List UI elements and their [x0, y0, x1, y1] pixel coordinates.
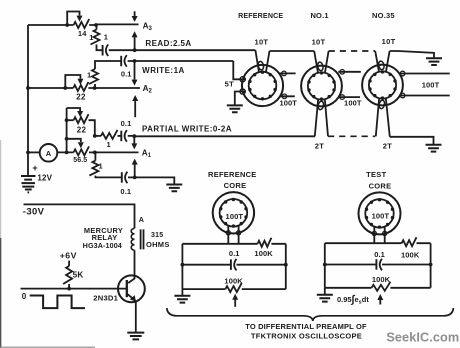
core NO.35 (toroid 3): [362, 65, 403, 106]
wire top dashed link core2-core3: [329, 50, 376, 52]
svg-text:WRITE:1A: WRITE:1A: [142, 66, 185, 75]
svg-text:REFERENCE: REFERENCE: [208, 170, 257, 179]
wire rheostat column bus: [66, 108, 68, 152]
wire A3 rail right to contact: [89, 23, 138, 26]
wire base line: [21, 288, 127, 290]
resistor R12 100K (test top): [402, 237, 417, 246]
core tab left upper (5T): [240, 77, 245, 82]
wire test box sides: [325, 243, 431, 288]
wire core3 to bottom ground: [390, 137, 434, 144]
ground (emitter): [127, 333, 144, 340]
square wave input: [30, 296, 85, 309]
ground (branch): [166, 185, 182, 192]
wire test core leads: [374, 227, 384, 244]
svg-text:5K: 5K: [73, 270, 84, 279]
resistor R8 1 (lower branch): [94, 152, 96, 160]
wire 10T leads core3: [375, 51, 379, 71]
wire core3 to top ground: [390, 51, 434, 58]
svg-text:100T: 100T: [344, 99, 362, 108]
resistor R3 22 (rheostat): [73, 82, 88, 91]
wire ref box mid line: [182, 264, 285, 266]
ground (2T chain): [426, 145, 442, 152]
resistor R1 14 (rheostat): [74, 19, 90, 28]
resistor R9 5K: [68, 261, 70, 266]
svg-text:100T: 100T: [372, 212, 390, 221]
capacitor C1 1 (A3 branch): [102, 45, 104, 56]
wire 5T to ground: [235, 92, 246, 105]
svg-text:PARTIAL WRITE:0-2A: PARTIAL WRITE:0-2A: [142, 125, 232, 134]
resistor R13 100K (test pot): [372, 282, 391, 291]
svg-text:10T: 10T: [312, 38, 326, 47]
svg-text:0: 0: [22, 292, 27, 301]
wire 2T leads core3: [376, 99, 379, 137]
capacitor C2 0.1 (WRITE): [120, 56, 122, 67]
svg-text:+: +: [32, 163, 37, 173]
ground (battery): [22, 187, 34, 193]
svg-text:0.1: 0.1: [121, 69, 132, 78]
wire 100T stubs core1: [280, 73, 296, 96]
scan artifact left edge: [0, 238, 2, 348]
wire A2 row rail: [28, 87, 140, 89]
svg-text:TFKTRONIX OSCILLOSCOPE: TFKTRONIX OSCILLOSCOPE: [251, 332, 362, 341]
svg-text:100T: 100T: [279, 99, 297, 108]
svg-text:100K: 100K: [224, 276, 243, 285]
wire branch to ground: [128, 177, 174, 184]
capacitor C4 0.1 (lower branch): [121, 172, 123, 183]
wire test box mid line: [325, 264, 431, 266]
svg-text:A3: A3: [143, 22, 153, 32]
svg-text:100T: 100T: [226, 212, 244, 221]
resistor R10 100K (ref top): [258, 238, 272, 247]
svg-text:22: 22: [76, 92, 86, 101]
core NO.1 (toroid 2): [301, 66, 342, 107]
svg-text:22: 22: [77, 125, 87, 134]
svg-text:100K: 100K: [254, 249, 273, 258]
wire ref box top: [182, 243, 285, 245]
svg-text:NO.1: NO.1: [310, 11, 328, 20]
wire 10T leads core2: [314, 51, 318, 72]
wire 10T leads core1: [255, 50, 259, 71]
svg-text:14: 14: [78, 29, 87, 38]
svg-text:10T: 10T: [254, 38, 268, 47]
wire ref box bottom: [182, 288, 285, 290]
wire bottom dashed link core2-core3: [328, 135, 375, 137]
wire A1 row rail right: [89, 151, 139, 153]
svg-text:5T: 5T: [225, 79, 234, 88]
svg-text:2T: 2T: [315, 141, 325, 150]
wire test box top: [325, 242, 431, 244]
svg-text:315: 315: [151, 232, 163, 239]
svg-text:100K: 100K: [372, 275, 391, 284]
resistor R5 22 (rheostat, partial write): [67, 119, 74, 121]
svg-text:100T: 100T: [422, 80, 440, 89]
resistor R7 1 (upper partial-write branch): [95, 135, 101, 137]
wire 100T lines core3: [399, 74, 450, 96]
svg-text:SeekIC.com: SeekIC.com: [386, 331, 459, 345]
svg-text:CORE: CORE: [369, 181, 392, 190]
svg-text:A: A: [46, 149, 52, 158]
svg-text:100K: 100K: [401, 251, 420, 260]
svg-text:1: 1: [104, 33, 108, 42]
wire bus to ammeter: [28, 151, 40, 153]
svg-text:OHMS: OHMS: [146, 240, 170, 249]
resistor R2 1 (series, A3 branch): [96, 25, 98, 30]
wire left supply bus: [27, 25, 29, 176]
svg-text:A: A: [139, 215, 144, 224]
ground (10T chain): [426, 58, 442, 65]
relay contact A2: [134, 61, 136, 80]
svg-text:56.5: 56.5: [73, 157, 87, 164]
resistor R11 100K (ref pot): [225, 283, 241, 292]
svg-text:+6V: +6V: [60, 251, 77, 261]
wire WRITE line: [128, 60, 234, 62]
relay contact A3: [134, 11, 136, 16]
wire PARTIAL WRITE line: [128, 135, 315, 137]
svg-text:0.1: 0.1: [374, 250, 385, 259]
svg-text:REFERENCE: REFERENCE: [238, 12, 283, 20]
wire top link core1-core2: [270, 50, 315, 52]
relay coil A 315 ohms: [131, 228, 134, 250]
svg-text:10T: 10T: [382, 37, 396, 46]
svg-text:12V: 12V: [37, 174, 52, 183]
svg-text:1: 1: [87, 71, 91, 80]
svg-text:TEST: TEST: [366, 170, 386, 179]
relay contact A1: [133, 136, 135, 143]
svg-text:A1: A1: [142, 148, 152, 159]
brace to oscilloscope: [167, 308, 454, 321]
ground (ref box): [181, 289, 183, 295]
capacitor C6 0.1 (test): [375, 259, 377, 270]
svg-text:0.1: 0.1: [120, 187, 131, 196]
resistor R4 1 (series, A2 branch): [94, 84, 96, 88]
svg-text:-30V: -30V: [23, 207, 45, 218]
svg-text:READ:2.5A: READ:2.5A: [145, 39, 191, 48]
svg-text:0.95∫esdt: 0.95∫esdt: [337, 293, 369, 305]
wire test box bottom: [325, 287, 431, 289]
ammeter A: [40, 144, 58, 162]
svg-text:NO.35: NO.35: [372, 11, 395, 20]
svg-text:CORE: CORE: [224, 181, 247, 190]
capacitor C3 0.1 (PARTIAL WRITE): [120, 131, 122, 142]
svg-text:HG3A-1004: HG3A-1004: [83, 241, 122, 250]
svg-text:0.1: 0.1: [229, 249, 240, 258]
wire 100T stubs core2: [338, 72, 361, 97]
wire ref core leads: [228, 226, 238, 244]
battery 12V: [21, 176, 36, 183]
svg-text:2N3D1: 2N3D1: [93, 293, 118, 302]
core REFERENCE CORE (sense): [213, 192, 254, 233]
svg-text:1: 1: [106, 140, 110, 149]
wire 2T leads core2: [315, 100, 318, 137]
ground (test box): [324, 288, 326, 294]
svg-text:A2: A2: [143, 84, 153, 95]
resistor R6 56.5 (rheostat): [67, 139, 81, 142]
svg-text:TO DIFFERENTIAL PREAMPL OF: TO DIFFERENTIAL PREAMPL OF: [245, 322, 367, 331]
transistor Q1 2N301: [128, 250, 134, 283]
capacitor C5 0.1 (ref): [230, 259, 232, 270]
svg-text:0.1: 0.1: [121, 119, 132, 128]
wire WRITE to 5T: [233, 61, 246, 79]
ground (5T): [227, 105, 243, 112]
svg-text:1: 1: [99, 161, 103, 170]
node A3 rail left junction: [65, 23, 69, 27]
core REFERENCE (toroid 1): [242, 65, 283, 106]
core tab left lower (5T): [240, 89, 245, 94]
wire A3 row rail left: [28, 24, 74, 26]
svg-text:2T: 2T: [383, 141, 393, 150]
svg-text:1: 1: [89, 33, 93, 42]
core TEST CORE (sense): [359, 192, 401, 234]
wire READ line: [109, 49, 256, 51]
wire ref box sides: [182, 244, 285, 289]
wire -30V rail: [24, 204, 135, 228]
